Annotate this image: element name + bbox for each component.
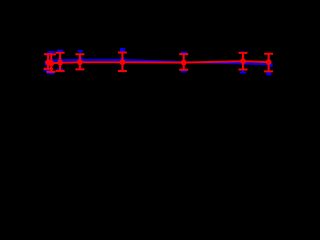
blue errorbar P5: [181, 53, 187, 72]
red line: [48, 61, 269, 63]
blue markers: [45, 58, 273, 67]
red errorbar P7: [264, 54, 273, 72]
blue errorbar P6: [240, 52, 246, 72]
red errorbar P5: [179, 54, 188, 70]
blue line: [47, 60, 270, 65]
blue errorbar P3: [78, 51, 83, 69]
blue errorbar P1b: [47, 52, 56, 73]
red errorbar P2: [56, 53, 65, 71]
blue errorbar P4: [120, 50, 125, 71]
red errorbar P1a: [44, 54, 54, 68]
blue P7 bottom chunk: [266, 73, 271, 76]
blue errorbar P2: [57, 51, 63, 70]
red errorbar P6: [239, 53, 248, 70]
red series (on top): [44, 53, 274, 72]
blue series (drawn first, under red): [44, 50, 272, 74]
blue errorbar P7: [266, 55, 271, 75]
red errorbar P1b: [46, 54, 56, 72]
errorbar chart on black background: [0, 0, 301, 201]
red errorbar P3: [75, 54, 84, 69]
red markers: [45, 58, 271, 66]
red errorbar P4: [118, 53, 127, 72]
blue errorbar P1a: [44, 54, 52, 70]
blue P4 top chunk: [120, 48, 125, 52]
